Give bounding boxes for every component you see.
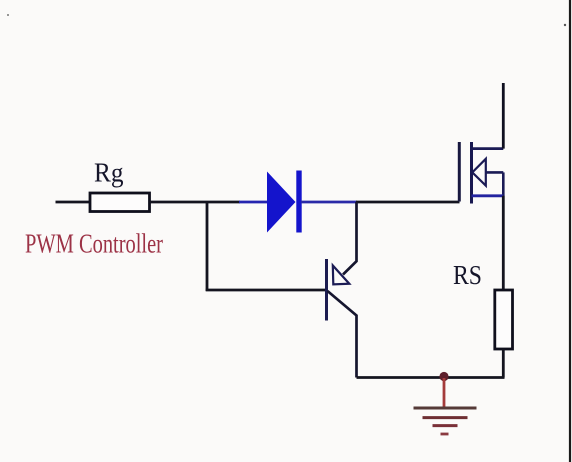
MOSFET M1 body-source link [502, 172, 505, 196]
resistor Rg [90, 193, 150, 212]
node A vertical drop to base [206, 202, 209, 291]
MOSFET M1 channel bar [470, 142, 473, 204]
svg-text:PWM Controller: PWM Controller [25, 229, 163, 259]
wire: RS bottom to rail [502, 349, 505, 378]
ground bar 3 [433, 424, 458, 427]
transistor Q1 collector wire down [328, 291, 357, 378]
speck top-left [7, 14, 9, 16]
transistor Q1 emitter arrow (hollow, points to bar) [333, 266, 350, 285]
speck top-right [564, 24, 566, 26]
right border line [569, 0, 571, 462]
MOSFET M1 drain wire up [502, 83, 505, 149]
wire: node B to MOSFET gate [356, 201, 460, 204]
transistor Q1 bar [325, 259, 328, 321]
svg-text:RS: RS [453, 260, 482, 290]
wire: base wire to Q1 [206, 289, 326, 292]
wire: left stub into Rg [56, 201, 91, 204]
transistor Q1 emitter wire up to node B [343, 202, 357, 275]
junction dot at ground tap [439, 372, 448, 381]
MOSFET M1 drain arm [472, 147, 504, 150]
ground bar 1 [414, 407, 477, 410]
wire: node A to diode anode (blue) [239, 201, 268, 204]
MOSFET M1 body arm [486, 171, 504, 174]
MOSFET M1 gate bar [458, 142, 461, 202]
MOSFET M1 source arm [472, 194, 504, 197]
MOSFET M1 body arrow (hollow, points left) [472, 159, 486, 186]
svg-text:Rg: Rg [94, 158, 124, 188]
diode D1 triangle [267, 172, 296, 233]
diode D1 cathode bar [296, 171, 301, 233]
ground stem [443, 378, 446, 408]
wire: Rg to node A [150, 201, 241, 204]
wire: source down to RS [502, 196, 505, 290]
ground bar 2 [423, 416, 468, 419]
ground bar 4 [441, 433, 449, 436]
wire: bottom rail [357, 376, 505, 379]
resistor RS [495, 290, 513, 349]
wire: diode cathode to node B (blue) [301, 201, 357, 204]
